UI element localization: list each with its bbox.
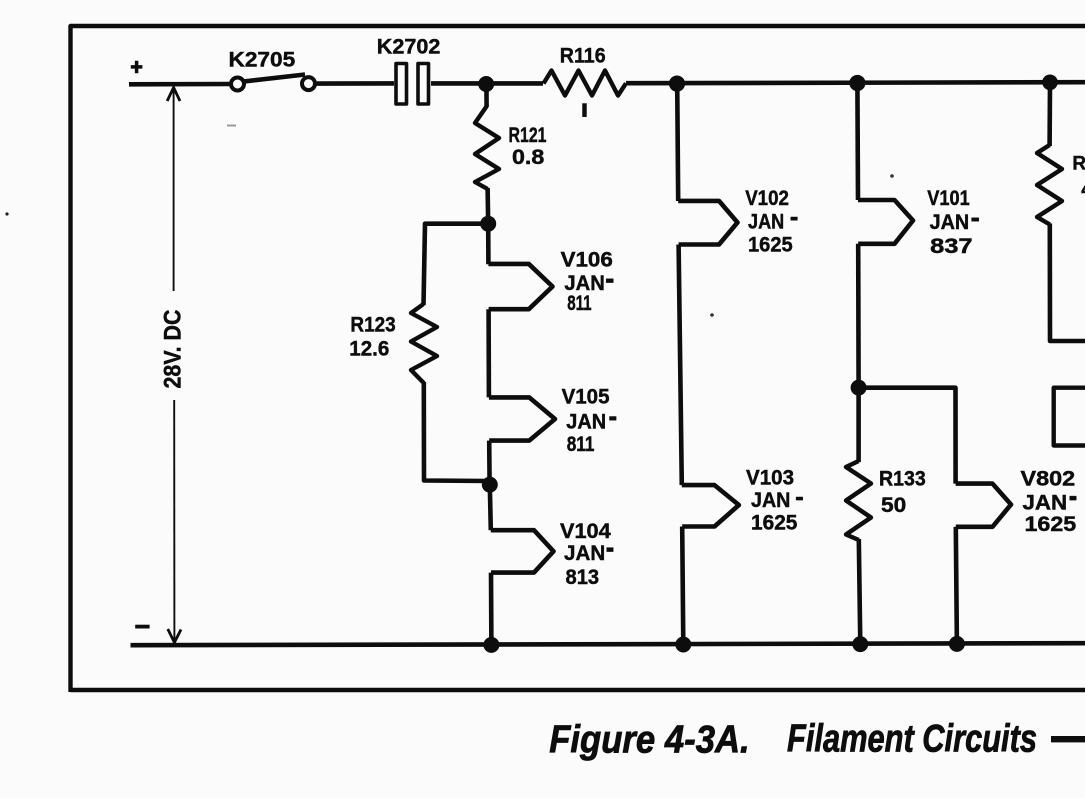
svg-text:R1: R1: [1072, 154, 1085, 175]
svg-text:0.8: 0.8: [512, 146, 545, 169]
wire node A down to R121: [484, 84, 489, 107]
junction bottom bus V103: [675, 637, 691, 653]
svg-text:837: 837: [930, 235, 973, 258]
wire V103 to bottom bus: [682, 527, 683, 646]
stray scan dash near switch: [227, 125, 236, 127]
svg-text:V103: V103: [746, 467, 794, 490]
wire node B down to V106: [486, 224, 491, 265]
top bus wire (+): [129, 82, 231, 87]
plus terminal label: [131, 61, 143, 73]
wire node C down to V104: [490, 485, 491, 531]
svg-text:50: 50: [881, 494, 906, 517]
junction top bus V102: [669, 76, 685, 92]
wire R121 to node B: [485, 188, 490, 224]
stray scan speck below V102: [710, 313, 714, 317]
svg-text:V105: V105: [562, 385, 610, 408]
wire R123 down and right to node C: [424, 382, 489, 481]
wire V101 to node D: [856, 244, 861, 388]
junction top bus V101: [849, 75, 865, 91]
wire node B left branch to R123: [424, 224, 488, 305]
junction top bus right resistor: [1042, 75, 1058, 91]
wire top bus node down to right resistor: [1047, 82, 1052, 146]
tube filament V101: [858, 200, 913, 244]
resistor R121: [475, 106, 499, 189]
junction node A: [478, 76, 494, 92]
wire node D right to V802 column: [859, 388, 956, 484]
junction bottom bus V104: [483, 637, 499, 653]
component box cut off at right edge: [1054, 388, 1085, 446]
svg-text:V101: V101: [927, 187, 970, 210]
wire K2702 to node A: [431, 81, 543, 86]
svg-text:45: 45: [1081, 180, 1085, 201]
tube filament V104: [491, 530, 554, 572]
tube filament V103: [682, 485, 739, 526]
svg-text:Figure 4-3A.: Figure 4-3A.: [549, 719, 750, 762]
svg-text:R133: R133: [879, 468, 926, 491]
resistor R133: [846, 461, 871, 540]
bottom bus wire (-): [131, 643, 1085, 645]
wire V104 to bottom bus: [489, 573, 494, 645]
caption Figure 4-3A. Filament Circuits: [549, 718, 1037, 762]
wire V102 to V103: [679, 245, 682, 486]
junction node D: [851, 380, 867, 396]
wire node D down to R133: [856, 388, 861, 463]
svg-text:1625: 1625: [1025, 513, 1077, 536]
svg-text:JAN: JAN: [748, 211, 784, 234]
wire V105 to node C: [487, 441, 492, 485]
svg-text:V102: V102: [745, 187, 789, 210]
svg-text:R121: R121: [509, 124, 547, 147]
svg-text:R116: R116: [560, 45, 606, 68]
caption em dash: [1051, 736, 1085, 742]
resistor R123: [411, 304, 437, 383]
svg-text:811: 811: [567, 433, 595, 456]
tube filament V802: [956, 484, 1011, 527]
wire right resistor down and right off-canvas: [1050, 224, 1085, 342]
svg-text:JAN: JAN: [564, 542, 605, 565]
svg-text:JAN: JAN: [1023, 492, 1068, 515]
junction node C: [482, 477, 498, 493]
wire switch to K2702: [315, 81, 394, 86]
svg-text:V104: V104: [560, 520, 611, 543]
svg-text:JAN: JAN: [751, 489, 790, 512]
svg-text:R123: R123: [350, 314, 395, 337]
tube filament V106: [488, 264, 552, 309]
28V DC measure arrow: [167, 88, 181, 643]
stray scan speck near V101: [890, 174, 894, 178]
svg-text:JAN: JAN: [930, 211, 970, 234]
wire V106 to V105: [486, 309, 491, 397]
stray scan speck left margin: [5, 212, 8, 215]
wire R116 to right edge of top bus: [626, 82, 1085, 83]
tube filament V105: [489, 397, 555, 440]
relay contacts K2702: [396, 64, 429, 105]
svg-text:12.6: 12.6: [349, 338, 389, 361]
svg-text:811: 811: [567, 292, 592, 315]
tube filament V102: [678, 201, 737, 245]
svg-text:JAN: JAN: [566, 411, 606, 434]
border frame: [71, 26, 1085, 692]
wire top bus node down to V101: [855, 83, 860, 200]
svg-text:28V. DC: 28V. DC: [160, 310, 187, 389]
junction bottom bus V802: [949, 636, 965, 652]
svg-text:K2705: K2705: [229, 49, 296, 72]
resistor R116: [544, 71, 627, 96]
wire V802 to bottom bus: [956, 527, 957, 645]
resistor R4xx (cut off at right): [1037, 145, 1062, 225]
svg-text:1625: 1625: [748, 234, 793, 257]
junction node B: [480, 216, 496, 232]
minus terminal label: [135, 625, 149, 629]
wire R133 to bottom bus: [859, 539, 861, 644]
svg-text:1625: 1625: [751, 512, 798, 535]
svg-text:813: 813: [566, 566, 600, 589]
svg-text:K2702: K2702: [377, 36, 441, 59]
value 1 of R116: [583, 104, 587, 117]
svg-text:V802: V802: [1021, 468, 1076, 491]
junction bottom bus R133: [852, 636, 868, 652]
svg-text:Filament Circuits: Filament Circuits: [787, 718, 1037, 761]
svg-text:V106: V106: [561, 249, 613, 272]
switch K2705: [231, 75, 315, 91]
wire top bus node down to V102: [677, 84, 678, 202]
